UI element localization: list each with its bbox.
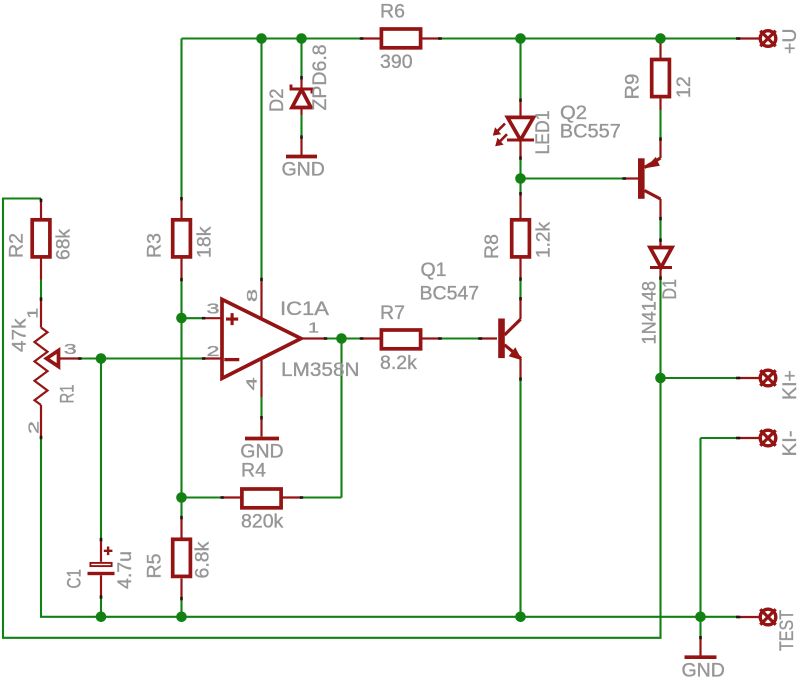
node rail Q1 xyxy=(515,612,526,623)
node top R9 xyxy=(655,33,666,44)
svg-text:GND: GND xyxy=(282,159,325,181)
zener diode D2 xyxy=(266,44,331,115)
node KI+ xyxy=(655,373,666,384)
svg-text:IC1A: IC1A xyxy=(280,298,329,320)
terminal KI- xyxy=(738,430,801,456)
resistor R5 xyxy=(144,518,214,599)
wire feedback column xyxy=(340,339,342,498)
svg-text:1.2k: 1.2k xyxy=(533,222,555,258)
wire R3 bottom to node xyxy=(180,280,182,498)
svg-text:KI-: KI- xyxy=(779,431,801,457)
svg-text:2: 2 xyxy=(207,343,220,360)
node top LED xyxy=(515,33,526,44)
wire node to R5 xyxy=(180,498,182,518)
svg-text:C1: C1 xyxy=(64,569,86,589)
svg-text:GND: GND xyxy=(682,659,725,681)
svg-text:+U: +U xyxy=(779,29,801,54)
svg-text:18k: 18k xyxy=(194,226,216,258)
node rail C1 xyxy=(96,612,107,623)
svg-text:3: 3 xyxy=(64,341,77,358)
wire R7 to Q1 base xyxy=(440,337,480,339)
node R4 left xyxy=(176,492,187,503)
svg-text:68k: 68k xyxy=(53,229,75,260)
capacitor C1 xyxy=(64,540,137,598)
svg-text:8: 8 xyxy=(244,289,261,302)
wire D2 top xyxy=(300,39,302,78)
svg-text:1N4148: 1N4148 xyxy=(639,281,661,345)
wire KI- xyxy=(701,437,738,439)
wire KI+ xyxy=(661,377,738,379)
wire top rail left of R6 xyxy=(182,37,362,39)
node LED R8 xyxy=(515,173,526,184)
svg-text:LED1: LED1 xyxy=(532,111,554,155)
svg-text:8.2k: 8.2k xyxy=(380,352,417,374)
wire C1 bottom xyxy=(100,597,102,617)
wire R5 bottom xyxy=(180,599,182,617)
resistor R6 xyxy=(362,1,441,74)
wire LED column top xyxy=(519,39,521,101)
wire op-amp pin2 xyxy=(101,357,204,359)
wire KI- column xyxy=(699,438,701,617)
ground GND (bottom) xyxy=(682,638,725,682)
svg-text:R1: R1 xyxy=(57,385,79,404)
svg-text:390: 390 xyxy=(380,51,413,73)
svg-text:R8: R8 xyxy=(481,234,503,259)
svg-text:4: 4 xyxy=(244,377,261,390)
potentiometer R1 xyxy=(9,300,81,438)
svg-text:3: 3 xyxy=(207,300,220,317)
wire op-amp pin3 xyxy=(182,317,204,319)
node rail GND xyxy=(695,612,706,623)
op-amp IC1A xyxy=(204,279,360,397)
svg-text:TEST: TEST xyxy=(776,610,798,651)
svg-text:1: 1 xyxy=(308,320,319,337)
wire R3 column top xyxy=(180,39,182,198)
node top pin8 xyxy=(256,33,267,44)
resistor R9 xyxy=(622,39,696,111)
wire D2 to GND xyxy=(300,115,302,137)
wire R2 to R1 xyxy=(40,280,42,299)
svg-text:47k: 47k xyxy=(9,318,31,352)
wire R9 to Q2 emitter xyxy=(659,110,661,139)
wire R1 wiper to node xyxy=(80,357,101,359)
svg-text:R2: R2 xyxy=(6,233,28,258)
svg-text:R6: R6 xyxy=(380,1,405,23)
node rail R5 xyxy=(176,612,187,623)
svg-text:KI+: KI+ xyxy=(779,370,801,400)
svg-text:D1: D1 xyxy=(659,279,681,300)
svg-text:4.7u: 4.7u xyxy=(114,551,136,589)
wire C1 column xyxy=(100,359,102,540)
wire top rail right of R6 xyxy=(440,37,738,39)
svg-text:GND: GND xyxy=(240,441,283,463)
svg-text:R3: R3 xyxy=(144,233,166,258)
svg-text:BC557: BC557 xyxy=(560,121,621,143)
wire LED to node xyxy=(519,158,521,194)
svg-text:R7: R7 xyxy=(380,302,405,324)
wire Q2 base xyxy=(521,177,625,179)
wire R2 top to left edge xyxy=(3,199,661,638)
transistor Q1 xyxy=(420,259,523,379)
terminal KI+ xyxy=(738,370,801,400)
svg-text:R4: R4 xyxy=(241,460,266,482)
ground GND (D2) xyxy=(282,137,325,181)
transistor Q2 xyxy=(560,102,661,219)
wire R1 bottom rail xyxy=(41,439,738,617)
wire op-amp output xyxy=(326,337,362,339)
svg-text:BC547: BC547 xyxy=(420,283,480,305)
diode D1 xyxy=(639,240,682,345)
wire Q2 collector to D1 xyxy=(659,219,661,241)
resistor R7 xyxy=(362,302,441,374)
resistor R8 xyxy=(481,194,555,280)
wire R8 bottom to Q1 collector xyxy=(519,279,521,299)
resistor R4 xyxy=(222,460,302,533)
node output xyxy=(336,333,347,344)
wire R4 left xyxy=(182,496,223,498)
wire Q1 emitter to rail xyxy=(519,379,521,617)
svg-text:820k: 820k xyxy=(241,511,284,533)
terminal TEST xyxy=(738,609,798,651)
terminal +U xyxy=(738,29,801,54)
node top D2 xyxy=(296,33,307,44)
wire R4 right xyxy=(302,496,342,498)
LED LED1 xyxy=(493,100,554,158)
resistor R3 xyxy=(144,198,216,280)
svg-text:Q1: Q1 xyxy=(421,259,447,281)
pin end dots xyxy=(40,37,741,639)
wire GND stub bottom xyxy=(699,617,701,638)
resistor R2 xyxy=(6,200,75,280)
svg-text:D2: D2 xyxy=(266,89,288,113)
svg-text:R9: R9 xyxy=(622,74,644,100)
wire op-amp pin4 gap xyxy=(260,397,262,418)
svg-text:2: 2 xyxy=(26,421,43,434)
svg-text:6.8k: 6.8k xyxy=(192,541,214,578)
svg-text:LM358N: LM358N xyxy=(281,359,360,381)
wire D1 to KI+ node xyxy=(659,278,661,378)
svg-text:ZPD6.8: ZPD6.8 xyxy=(309,44,331,110)
svg-text:1: 1 xyxy=(25,308,42,319)
wire op-amp pin8 column xyxy=(260,39,262,280)
ground GND (op-amp pin4) xyxy=(240,418,283,463)
node wiper xyxy=(96,353,107,364)
svg-text:R5: R5 xyxy=(144,553,166,578)
node pin3 xyxy=(176,313,187,324)
svg-text:12: 12 xyxy=(673,76,695,98)
